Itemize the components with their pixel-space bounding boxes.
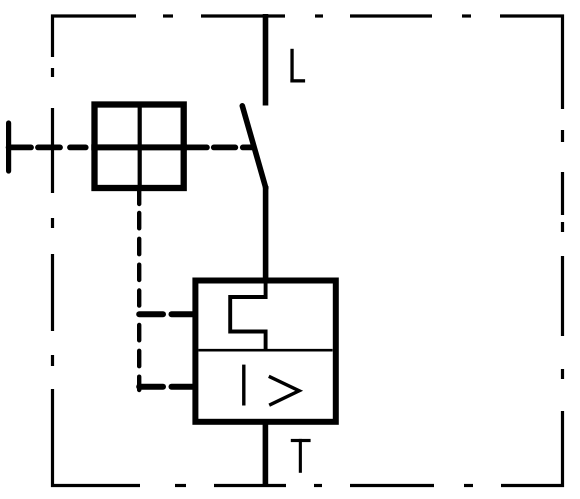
label T (291, 439, 311, 473)
label L (290, 49, 305, 83)
actuator square (95, 105, 184, 189)
wire switch to trip unit (263, 186, 269, 281)
thermal overload release (230, 280, 265, 349)
terminal T wire (263, 423, 269, 487)
trip unit divider (198, 349, 332, 352)
magnetic overcurrent release I> (244, 365, 299, 406)
terminal L wire (263, 14, 269, 106)
mechanical linkage vertical dashes (137, 191, 141, 390)
enclosure border top (53, 16, 563, 109)
enclosure border right (501, 130, 563, 486)
enclosure border bottom (175, 484, 473, 487)
enclosure border left (53, 68, 141, 486)
actuator cross vertical (138, 105, 142, 192)
handle T-bar (9, 123, 31, 171)
switch contact blade (242, 106, 265, 188)
linkage branch upper to thermal release (139, 311, 192, 317)
trip unit box (195, 281, 335, 422)
mechanical linkage horizontal dashes (38, 144, 253, 150)
actuator cross horizontal (91, 144, 187, 150)
linkage branch lower to magnetic release (139, 384, 192, 390)
